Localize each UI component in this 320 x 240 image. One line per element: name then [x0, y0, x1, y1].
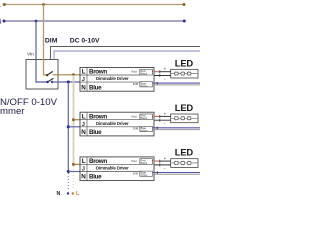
node N branch to driver 3 [67, 170, 70, 173]
svg-text:DIM: DIM [133, 171, 139, 175]
svg-text:LED: LED [175, 147, 194, 158]
wire Vout- black to LED 3 [154, 164, 171, 166]
svg-text:Vout: Vout [131, 159, 137, 163]
svg-text:-: - [164, 121, 166, 126]
wire DIM grey from dimmer top [51, 47, 201, 60]
terminal Vout driver 3 [140, 158, 154, 165]
svg-text:J: J [82, 122, 85, 128]
svg-text:L: L [76, 191, 80, 197]
LED module 1 box [171, 69, 198, 78]
terminal Vout driver 2 [140, 114, 154, 121]
switch SW-N inside dimmer [46, 81, 48, 83]
svg-text:Vout: Vout [131, 70, 137, 74]
node DIM tick 2 [156, 127, 158, 129]
LED chips 1 [175, 71, 179, 75]
LED chips 3 [175, 161, 179, 165]
svg-text:J: J [82, 77, 85, 83]
node N bus junction [35, 20, 38, 23]
wire Vout+ red to LED 1 [154, 71, 160, 73]
node N branch to driver 2 [67, 125, 70, 128]
terminal DIM driver 3 [140, 171, 153, 178]
driver U3 box [80, 157, 154, 181]
svg-text:DIM: DIM [133, 82, 139, 86]
node DIM tick 1 [156, 82, 158, 84]
wire DIM white out driver 3 [153, 173, 201, 175]
node N end dot [67, 192, 69, 194]
svg-text:-: - [152, 72, 153, 76]
svg-text:+: + [164, 156, 167, 161]
svg-text:dimmer: dimmer [0, 106, 25, 117]
svg-text:L: L [82, 113, 86, 120]
wire Vout+ red to LED 3 [154, 160, 160, 162]
node L bus left terminal [3, 3, 6, 6]
node L feeder junction [72, 73, 75, 76]
dimmer box [26, 60, 58, 90]
switch SW-L inside dimmer [46, 74, 48, 76]
LED chips 2 [175, 116, 179, 120]
svg-text:Blue: Blue [89, 84, 102, 91]
node N bus left terminal [3, 20, 6, 23]
svg-text:DC 0-10V: DC 0-10V [70, 37, 100, 44]
svg-text:Dimmable Driver: Dimmable Driver [96, 76, 129, 81]
wire DIM blue out driver 3 [153, 172, 201, 174]
node L bus right terminal [183, 3, 186, 6]
svg-text:L: L [82, 158, 86, 165]
svg-text:+: + [164, 111, 167, 116]
wire N mains bus (blue) [4, 20, 185, 22]
wire L branch to driver 3 [74, 163, 81, 165]
wire DIM violet from dimmer top [54, 51, 200, 60]
node L branch to driver 3 [72, 163, 75, 166]
svg-text:L: L [82, 69, 86, 76]
svg-text:N: N [57, 191, 61, 197]
svg-text:Dimmable Driver: Dimmable Driver [96, 121, 129, 126]
node DIM tick 3 [156, 171, 158, 173]
svg-text:Black: Black [141, 71, 148, 75]
svg-text:-: - [152, 116, 153, 120]
wire N drop into dimmer [36, 21, 47, 82]
svg-text:Dimmable Driver: Dimmable Driver [96, 166, 129, 171]
node L end dot [72, 192, 74, 194]
wire Vout- black to LED 2 [154, 119, 171, 121]
wire DIM white out driver 1 [153, 84, 201, 86]
node L branch to driver 2 [72, 118, 75, 121]
wire L drop into dimmer [44, 5, 47, 75]
wire N branch to driver 3 [68, 171, 80, 173]
wire L branch to driver 2 [74, 119, 81, 121]
svg-text:-: - [164, 166, 166, 171]
LED module 3 box [171, 159, 198, 168]
wire Vout+ red to LED 2 [154, 115, 160, 117]
terminal Vout driver 1 [140, 69, 154, 76]
wire L dotted continuation [73, 166, 75, 190]
svg-text:Black: Black [141, 116, 148, 120]
svg-text:Blue: Blue [89, 174, 102, 181]
wire DIM white out driver 2 [153, 129, 201, 131]
terminal DIM driver 2 [140, 126, 153, 133]
node L bus junction [42, 3, 45, 6]
svg-text:LED: LED [175, 102, 194, 113]
svg-text:Brown: Brown [89, 158, 107, 165]
svg-text:Brown: Brown [89, 69, 107, 76]
svg-text:DIM: DIM [133, 127, 139, 131]
svg-text:DIM: DIM [45, 37, 58, 44]
svg-text:White: White [141, 84, 148, 88]
svg-text:L: L [0, 2, 1, 9]
svg-text:+: + [164, 67, 167, 72]
svg-text:Vout: Vout [131, 114, 137, 118]
svg-text:-: - [164, 76, 166, 81]
wire N dotted continuation [67, 173, 69, 190]
node N feeder junction [67, 81, 70, 84]
svg-text:White: White [141, 173, 148, 177]
svg-text:J: J [82, 167, 85, 173]
wire DIM blue out driver 2 [153, 127, 201, 129]
driver U2 box [80, 112, 154, 136]
svg-text:-: - [152, 161, 153, 165]
wire Vout- black to LED 1 [154, 75, 171, 77]
wire N branch to driver 2 [68, 126, 80, 128]
svg-text:White: White [141, 129, 148, 133]
LED module 2 box [171, 114, 198, 123]
wire N feeder vertical (blue) [67, 82, 69, 172]
node N bus right terminal [183, 20, 186, 23]
wire L mains bus (brown, top) [4, 4, 185, 6]
svg-text:N: N [0, 19, 2, 26]
driver U1 box [80, 68, 154, 92]
svg-text:LED: LED [175, 57, 194, 68]
svg-text:Vin: Vin [27, 52, 34, 58]
svg-text:Black: Black [141, 161, 148, 165]
wire DIM blue out driver 1 [153, 82, 201, 84]
terminal DIM driver 1 [140, 81, 153, 88]
svg-text:Brown: Brown [89, 113, 107, 120]
wire L feeder vertical (tan) [73, 75, 75, 164]
svg-text:Blue: Blue [89, 129, 102, 136]
